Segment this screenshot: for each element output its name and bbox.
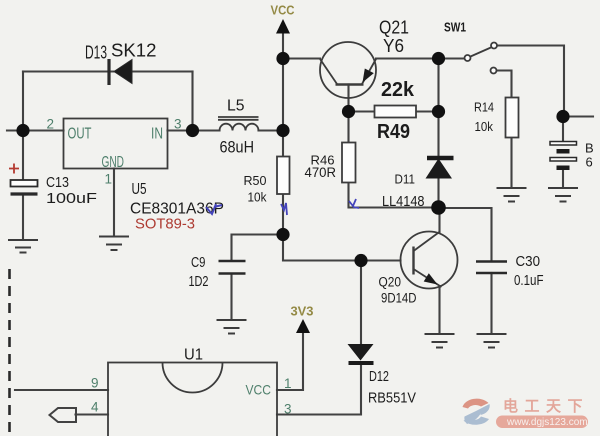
wire battery bottom lead	[562, 170, 564, 188]
wire D12 to pin3 rail	[277, 365, 361, 415]
node IN junction	[186, 124, 199, 137]
svg-text:SW1: SW1	[444, 20, 466, 35]
wire Q20 emitter to ground	[438, 287, 440, 334]
handwritten blue mark on R50 lead	[281, 203, 287, 215]
wire node to C9	[232, 235, 284, 262]
wire R50 to node	[282, 194, 284, 235]
svg-text:22k: 22k	[381, 79, 415, 101]
svg-text:470R: 470R	[305, 165, 337, 180]
wire IN pin to L5	[168, 129, 220, 131]
diode D12	[348, 344, 374, 363]
power 3V3 arrow	[296, 319, 310, 333]
wire SW1 column down	[437, 59, 439, 158]
ground C13	[8, 240, 38, 253]
svg-text:10k: 10k	[475, 119, 494, 134]
wire node down to Q20 collector	[438, 208, 440, 233]
ground Q20	[425, 334, 455, 348]
svg-text:100uF: 100uF	[46, 190, 97, 207]
wire C13 branch	[22, 131, 24, 181]
wire node down to Q20 base rail	[283, 235, 401, 261]
svg-text:Q20: Q20	[379, 275, 402, 290]
svg-text:68uH: 68uH	[220, 138, 255, 157]
connector pin4 tag	[50, 408, 77, 422]
wire U5 GND lead	[113, 169, 115, 236]
node VCC mid	[276, 124, 289, 137]
wire D13 cathode side	[109, 70, 193, 72]
svg-text:D11: D11	[395, 172, 416, 187]
svg-text:D13: D13	[85, 43, 107, 63]
svg-text:Y6: Y6	[383, 36, 404, 56]
wire base node down to D12	[360, 261, 362, 345]
node OUT junction	[16, 124, 29, 137]
node D11 anode	[431, 200, 446, 215]
wire VCC node down to R50	[282, 131, 284, 157]
svg-text:U5: U5	[132, 181, 147, 198]
wire R46 bottom to LL4148 node	[349, 183, 439, 208]
svg-text:6: 6	[586, 155, 593, 170]
power VCC arrow	[276, 19, 290, 34]
wire Q21 base down	[347, 85, 349, 112]
wire battery node stub	[563, 115, 593, 117]
wire battery top lead	[562, 117, 564, 142]
svg-text:2: 2	[47, 117, 55, 132]
switch SW1	[465, 43, 498, 74]
watermark banner	[496, 416, 588, 429]
wire D13 anode side	[23, 70, 131, 72]
wire R49 to D11 node	[416, 110, 439, 112]
handwritten blue mark at R46 corner	[349, 199, 359, 208]
svg-text:3: 3	[284, 402, 292, 417]
svg-text:VCC: VCC	[246, 382, 272, 398]
svg-text:10k: 10k	[248, 190, 267, 205]
svg-text:C30: C30	[516, 254, 541, 270]
wire VCC arrow to rail	[282, 33, 284, 131]
handwritten blue mark near CE8301A36P	[206, 204, 222, 214]
capacitor C13	[9, 164, 38, 195]
IC U1 box	[108, 363, 277, 436]
svg-text:GND: GND	[102, 154, 125, 171]
diode D13	[109, 59, 132, 85]
svg-text:9D14D: 9D14D	[381, 291, 417, 306]
wire U1 pin 1 to 3V3	[277, 331, 303, 390]
inductor L5	[218, 117, 259, 131]
wire top rail VCC to Q21	[283, 57, 320, 59]
wire U1 pin 4	[76, 413, 109, 415]
transistor Q20	[401, 232, 458, 289]
svg-text:SK12: SK12	[111, 41, 157, 61]
wire C30 to ground	[490, 273, 492, 334]
wire C9 to ground	[230, 274, 232, 320]
node SW1 common	[432, 52, 445, 65]
junction node dots	[16, 52, 569, 267]
resistor R14	[506, 98, 519, 138]
wire D13 loop right vertical	[191, 72, 193, 131]
wire Q21 emitter to SW1 node	[376, 57, 465, 59]
svg-text:3V3: 3V3	[291, 304, 314, 319]
ground battery	[548, 188, 578, 202]
wire SW1 top throw to battery	[497, 46, 564, 117]
ground U5	[99, 237, 129, 251]
node VCC top	[276, 52, 289, 65]
battery B6	[550, 142, 577, 171]
svg-text:电工天下: 电工天下	[503, 397, 589, 415]
svg-text:R14: R14	[474, 100, 494, 115]
watermark logo	[463, 399, 490, 425]
node Q21 base	[342, 105, 355, 118]
svg-text:VCC: VCC	[271, 3, 296, 18]
svg-text:OUT: OUT	[68, 126, 92, 143]
wire R14 to ground	[510, 138, 512, 188]
regulator U5 box	[64, 119, 168, 169]
capacitor C9	[219, 261, 246, 274]
node R49 right	[432, 105, 445, 118]
svg-text:1: 1	[284, 376, 292, 391]
svg-text:1D2: 1D2	[189, 274, 209, 290]
svg-text:RB551V: RB551V	[368, 391, 416, 407]
zener diode D11	[426, 158, 454, 179]
wire left stub to node OUT	[7, 129, 64, 131]
svg-text:4: 4	[91, 400, 99, 415]
svg-text:3: 3	[174, 117, 182, 132]
svg-text:LL4148: LL4148	[382, 194, 425, 210]
svg-text:Q21: Q21	[379, 18, 409, 38]
svg-text:www.dgjs123.com: www.dgjs123.com	[506, 417, 588, 428]
wire SW1 lower throw to R14	[497, 71, 512, 98]
svg-text:B: B	[585, 141, 594, 156]
svg-text:C13: C13	[46, 174, 69, 191]
resistor R46	[342, 143, 356, 183]
ground R14	[497, 188, 527, 202]
svg-text:0.1uF: 0.1uF	[514, 273, 544, 289]
wire node to C30	[439, 208, 492, 261]
wire node to R46 bottom corner	[347, 112, 349, 143]
svg-text:1: 1	[105, 172, 113, 187]
svg-text:IN: IN	[151, 126, 163, 143]
resistor R50	[277, 157, 290, 195]
transistor Q21	[320, 42, 376, 98]
svg-text:R49: R49	[377, 121, 410, 143]
svg-text:R50: R50	[244, 173, 267, 188]
ground C30	[477, 334, 507, 348]
svg-text:SOT89-3: SOT89-3	[135, 216, 195, 233]
capacitor C30	[476, 262, 507, 274]
node R50 bottom	[276, 228, 289, 241]
svg-text:C9: C9	[191, 255, 206, 271]
wire base node to R49	[349, 110, 375, 112]
wire D11 anode down	[437, 179, 439, 208]
svg-text:9: 9	[91, 376, 99, 391]
wire D13 loop left vertical	[22, 72, 24, 131]
wire U1 pin 9	[15, 389, 108, 391]
ground C9	[217, 320, 247, 334]
node Q20 base	[354, 254, 367, 267]
wire L5 to VCC node	[259, 129, 284, 131]
node battery top	[556, 110, 569, 123]
resistor R49	[375, 106, 417, 118]
dashed boundary line	[8, 269, 11, 436]
svg-text:L5: L5	[227, 98, 245, 115]
svg-text:D12: D12	[369, 369, 389, 385]
svg-text:U1: U1	[184, 347, 203, 364]
wire C13 to ground	[22, 196, 24, 240]
